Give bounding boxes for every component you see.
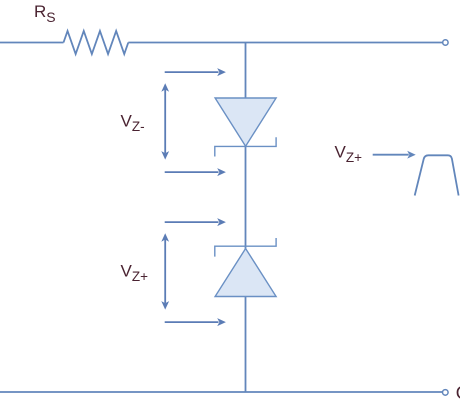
resistor RS bbox=[64, 31, 129, 54]
terminal (top right, open circle) bbox=[443, 40, 448, 45]
arrow right (below D2) bbox=[165, 318, 226, 326]
zener diode D2 (bottom, pointing up) bbox=[215, 249, 276, 297]
wire top (resistor to output terminal) bbox=[128, 42, 442, 44]
arrow double vertical VZ+ bbox=[161, 233, 169, 309]
arrow to waveform bbox=[373, 151, 416, 159]
wire middle vertical bbox=[245, 43, 247, 392]
zener diode D1 (top, pointing down) bbox=[215, 98, 276, 146]
svg-text:O: O bbox=[456, 382, 460, 403]
wire top-left (input to resistor) bbox=[0, 42, 64, 44]
terminal (bottom right, open circle) bbox=[443, 390, 449, 396]
arrow right (above D1) bbox=[165, 68, 226, 76]
arrow double vertical VZ- bbox=[161, 83, 169, 159]
arrow right (above D2 bar) bbox=[165, 218, 226, 226]
zener cathode bar D2 bbox=[215, 238, 276, 257]
zener cathode bar D1 bbox=[215, 137, 276, 156]
arrow right (below D1 bar) bbox=[165, 168, 226, 176]
wire bottom bbox=[0, 391, 443, 393]
clipped waveform bbox=[415, 155, 459, 195]
